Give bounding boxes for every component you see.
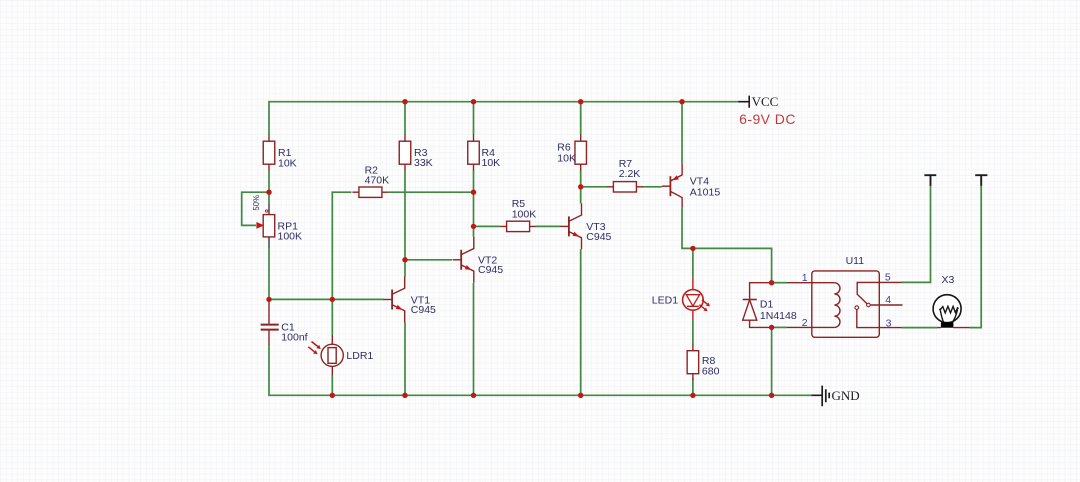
svg-text:33K: 33K [414,157,433,169]
svg-text:C945: C945 [586,231,611,243]
junction [266,190,271,195]
label RP1 [278,220,303,242]
terminal X3 right post [975,175,987,186]
junction [266,297,271,302]
label R8 [702,355,720,377]
junction [769,325,774,330]
junction [402,393,407,398]
svg-text:C945: C945 [411,304,436,316]
wire node to VT2 base [405,259,452,261]
terminal X3 left post [924,175,936,186]
resistor R1 [263,135,275,171]
label C1 [281,321,307,343]
wire VT2 emitter down [473,283,475,395]
wire LED1 to R8 [692,320,694,345]
wire to relay pin1 [772,282,787,284]
wire R5 to VT3 base [536,225,561,227]
wire X3 right terminal to lamp [970,186,982,328]
svg-text:2: 2 [802,317,808,329]
svg-text:100K: 100K [278,231,303,243]
wire R4 top [473,102,475,135]
wire LDR1 bottom [331,375,333,395]
junction [690,393,695,398]
resistor R8 [687,344,699,380]
svg-text:5: 5 [885,272,891,284]
junction [330,297,335,302]
junction [578,393,583,398]
wire GND rail [269,345,811,396]
wire relay node down [771,327,773,395]
LED LED1 [683,278,710,320]
wire R2 left drop [332,192,351,299]
wire base row to VT1 [269,298,384,300]
junction [330,393,335,398]
label R2 [365,164,390,186]
resistor R2 [352,187,388,197]
svg-text:VCC: VCC [752,94,779,109]
svg-text:C945: C945 [478,264,503,276]
label R5 [512,198,537,220]
resistor R5 [500,221,536,231]
svg-text:A1015: A1015 [690,187,721,199]
junction [471,224,476,229]
junction [769,393,774,398]
junction [402,99,407,104]
resistor R4 [468,135,480,171]
relay U11 contact [855,282,903,327]
wire X3 left terminal to pin5 [902,186,931,283]
wire VT4 collector to relay node [682,207,772,282]
label VT1 [411,294,436,316]
label R1 [278,147,297,169]
potentiometer RP1 [256,204,274,248]
svg-text:LED1: LED1 [652,295,678,307]
wire R8 bottom [692,379,694,396]
svg-text:6-9V DC: 6-9V DC [739,111,796,127]
wire VT3 emitter down [580,249,582,395]
capacitor C1 [261,299,279,344]
svg-text:4: 4 [885,294,891,306]
transistor VT3 [560,203,581,249]
junction [471,190,476,195]
junction [471,393,476,398]
label D1 [760,299,797,322]
wire LED1 top [692,248,694,277]
lamp X3 [933,295,969,328]
svg-text:50%: 50% [252,195,261,211]
net flag VCC [738,94,778,109]
svg-text:1N4148: 1N4148 [760,310,797,322]
wire RP1 top [268,192,270,204]
label VT3 [586,221,611,243]
wire VT1 emitter down [404,322,406,395]
label VT4 [690,176,721,199]
wire VT1 collector [404,260,406,277]
junction [690,246,695,251]
svg-text:X3: X3 [942,274,955,286]
svg-text:100K: 100K [512,208,537,220]
net flag GND [811,386,859,407]
svg-text:680: 680 [702,365,720,377]
wire pin3 to lamp [902,327,938,329]
label R6 [557,142,576,165]
label R3 [414,147,433,169]
wire R6 top [580,102,582,135]
photoresistor LDR1 [308,335,343,375]
wire VT4 emitter column [681,102,683,164]
junction [679,99,684,104]
wire R7 to VT4 base [642,186,662,188]
svg-text:2.2K: 2.2K [619,168,641,180]
relay pin numbers [802,272,892,330]
svg-text:10K: 10K [482,157,501,169]
transistor VT2 [453,237,474,283]
wire R6 bottom / VT3 collector [580,171,582,204]
wire R1 bottom [268,171,270,193]
wire LDR1 top [331,299,333,335]
svg-text:100nf: 100nf [281,331,307,343]
transistor VT1 [384,277,405,323]
junction [578,184,583,189]
wire node to R7 [581,186,607,188]
junction [769,280,774,285]
wire node to R5 [474,225,501,227]
relay U11 pin stubs [787,282,902,327]
svg-text:LDR1: LDR1 [346,350,373,362]
svg-text:3: 3 [886,317,892,329]
wire RP1 bottom to node [268,248,270,300]
svg-text:1: 1 [802,272,808,284]
wire VCC rail [269,102,738,135]
wire R2 right to R4 node [388,191,473,193]
label R4 [482,147,501,169]
junction [578,99,583,104]
svg-text:10K: 10K [557,152,576,164]
relay U11 coil [812,283,840,328]
wire R4 bottom through nodes [473,171,475,237]
wire to relay pin2 [772,326,787,328]
diode D1 [743,283,772,328]
wire RP1 wiper loop [242,192,269,225]
junction [471,99,476,104]
wire R3 bottom to node [404,171,406,260]
svg-text:GND: GND [832,388,860,403]
svg-text:U11: U11 [846,255,865,267]
resistor R7 [607,182,643,192]
relay U11 box [812,271,880,337]
svg-text:470K: 470K [365,175,390,187]
transistor VT4 [662,164,682,208]
resistor R6 [575,135,587,171]
svg-text:10K: 10K [278,157,297,169]
label R7 [619,158,641,180]
wire R3 top [404,102,406,135]
svg-text:D1: D1 [760,299,774,311]
label VT2 [478,254,503,276]
junction [402,257,407,262]
resistor R3 [399,135,411,171]
